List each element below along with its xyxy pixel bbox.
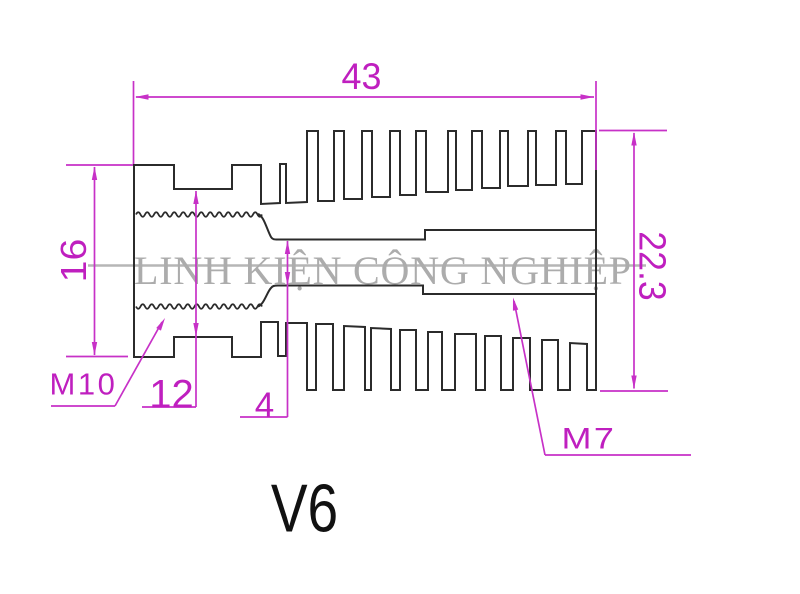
- svg-text:M7: M7: [562, 422, 617, 455]
- svg-text:22.3: 22.3: [631, 231, 673, 300]
- svg-text:43: 43: [342, 56, 382, 98]
- svg-text:V6: V6: [271, 471, 338, 547]
- svg-text:12: 12: [149, 373, 194, 417]
- svg-text:16: 16: [53, 239, 93, 283]
- svg-text:M10: M10: [50, 367, 118, 402]
- svg-text:4: 4: [255, 386, 274, 425]
